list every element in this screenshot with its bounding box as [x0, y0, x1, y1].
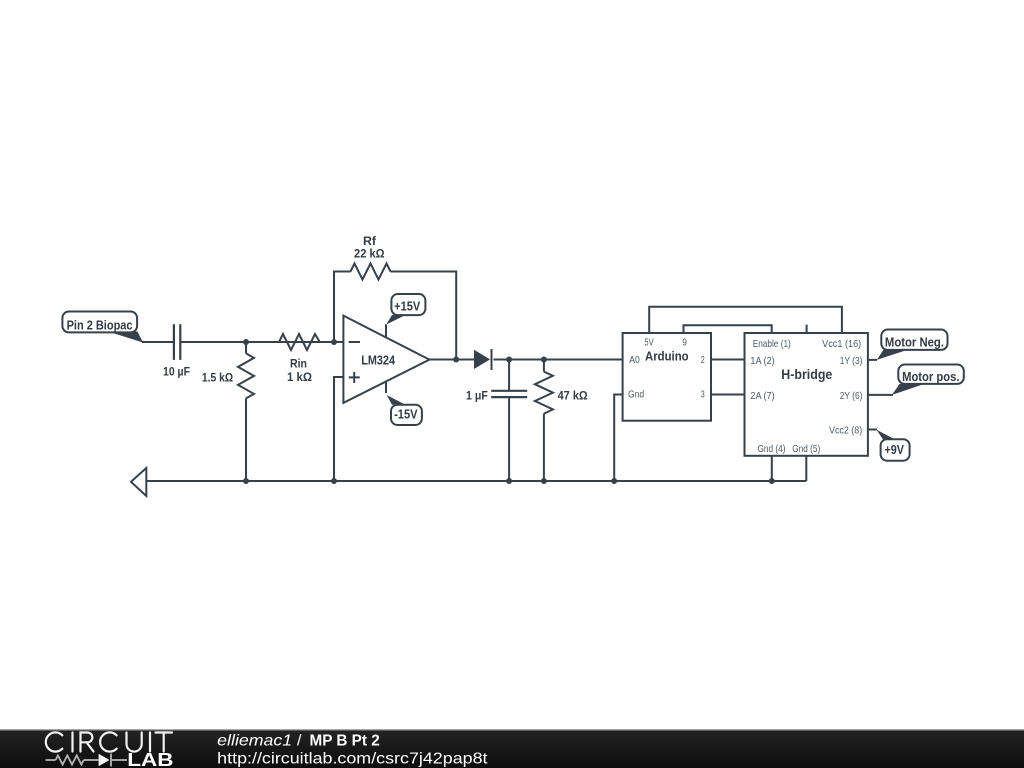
svg-text:2Y (6): 2Y (6) [840, 391, 863, 402]
svg-text:Pin 2 Biopac: Pin 2 Biopac [67, 318, 133, 333]
svg-text:5V: 5V [644, 337, 654, 348]
svg-text:1 kΩ: 1 kΩ [287, 370, 312, 384]
svg-text:Motor Neg.: Motor Neg. [885, 335, 944, 350]
svg-text:MP B Pt 2: MP B Pt 2 [310, 732, 380, 749]
svg-text:Gnd (4): Gnd (4) [758, 444, 786, 455]
svg-text:Vcc1 (16): Vcc1 (16) [822, 339, 861, 350]
svg-text:A0: A0 [629, 355, 640, 366]
svg-text:/: / [297, 732, 302, 749]
svg-text:H-bridge: H-bridge [781, 367, 832, 383]
svg-text:Gnd (5): Gnd (5) [792, 444, 820, 455]
svg-text:Rin: Rin [290, 356, 307, 370]
svg-text:Enable (1): Enable (1) [753, 339, 791, 350]
svg-text:1Y (3): 1Y (3) [840, 356, 863, 367]
svg-text:Vcc2 (8): Vcc2 (8) [829, 425, 862, 436]
svg-text:Gnd: Gnd [628, 390, 644, 401]
svg-text:-15V: -15V [394, 406, 418, 421]
svg-text:1A (2): 1A (2) [750, 356, 774, 367]
svg-text:2: 2 [701, 355, 705, 366]
svg-text:10 µF: 10 µF [163, 364, 190, 378]
svg-text:elliemac1: elliemac1 [217, 732, 292, 749]
svg-text:LAB: LAB [127, 750, 173, 768]
svg-text:LM324: LM324 [361, 354, 395, 368]
svg-text:http://circuitlab.com/csrc7j42: http://circuitlab.com/csrc7j42pap8t [217, 751, 488, 768]
svg-text:9: 9 [682, 337, 687, 348]
svg-text:1.5 kΩ: 1.5 kΩ [202, 370, 234, 384]
svg-text:Arduino: Arduino [645, 348, 689, 363]
svg-text:3: 3 [701, 390, 705, 401]
svg-text:22 kΩ: 22 kΩ [354, 247, 385, 261]
svg-text:+15V: +15V [394, 298, 420, 313]
svg-text:2A (7): 2A (7) [750, 391, 774, 402]
svg-text:+9V: +9V [885, 442, 905, 457]
svg-text:1 μF: 1 μF [466, 388, 488, 402]
svg-text:47 kΩ: 47 kΩ [558, 388, 588, 402]
svg-text:Motor pos.: Motor pos. [902, 369, 959, 384]
